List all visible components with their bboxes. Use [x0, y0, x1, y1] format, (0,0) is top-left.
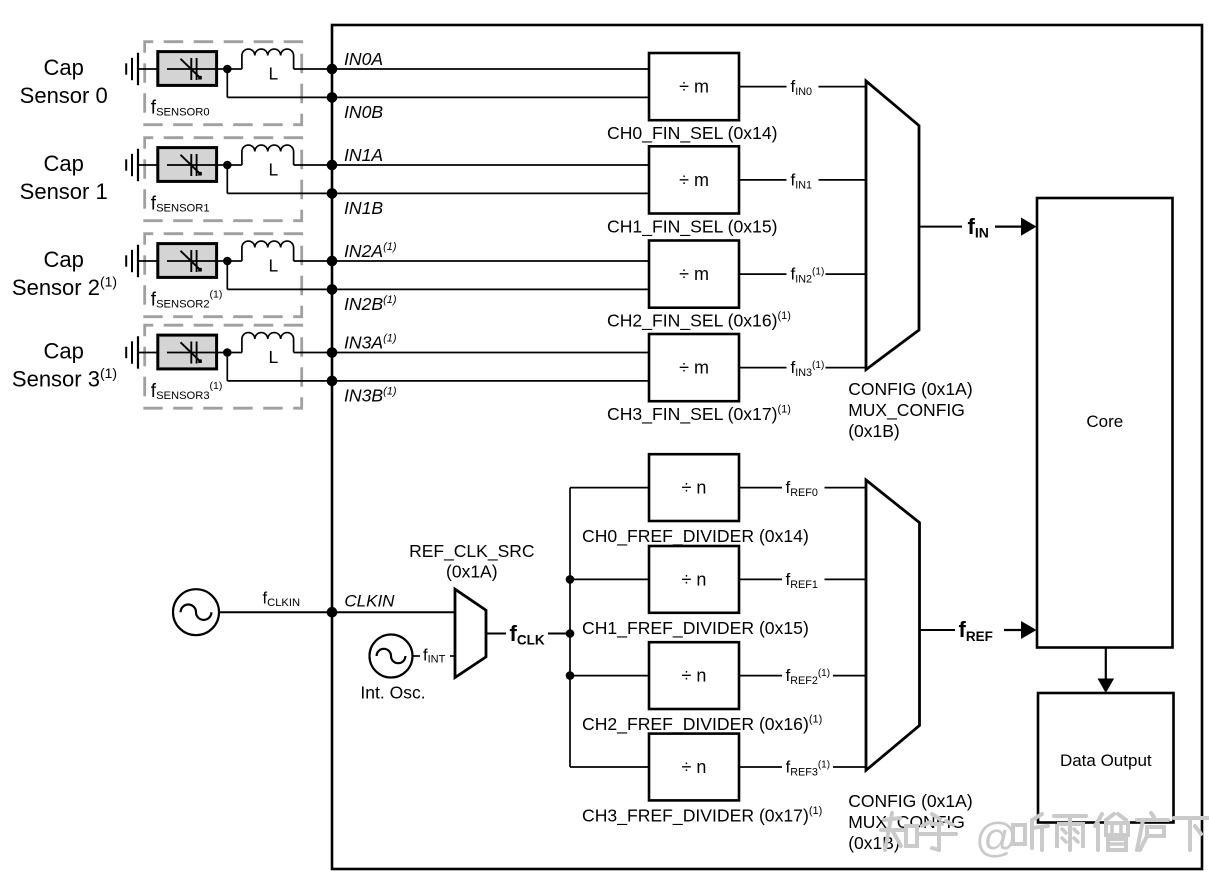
wire — [332, 68, 649, 70]
node f_CLK distribution junction — [566, 629, 575, 638]
svg-text:fIN: fIN — [968, 214, 989, 241]
svg-text:fIN0: fIN0 — [791, 77, 813, 98]
sensor electrode symbol C2 — [125, 255, 127, 266]
svg-text:IN0B: IN0B — [344, 102, 383, 122]
node sensor2 tank junction — [223, 257, 232, 266]
svg-text:IN3B(1): IN3B(1) — [344, 386, 397, 406]
svg-text:fREF0: fREF0 — [786, 478, 818, 499]
divider block /m channel 2 — [649, 241, 739, 308]
svg-text:CH1_FIN_SEL (0x15): CH1_FIN_SEL (0x15) — [607, 216, 777, 237]
svg-text:Sensor 3(1): Sensor 3(1) — [12, 365, 117, 392]
svg-text:÷ n: ÷ n — [682, 478, 707, 498]
wire — [332, 352, 649, 354]
wire — [833, 766, 866, 768]
wire f_REF3 — [739, 766, 782, 768]
svg-text:fSENSOR3(1): fSENSOR3(1) — [151, 380, 223, 402]
inductor L (sensor 0) — [232, 68, 242, 70]
wire CLKIN to ref mux — [332, 611, 455, 613]
wire — [819, 86, 867, 88]
svg-text:Sensor 2(1): Sensor 2(1) — [12, 274, 117, 301]
variable sensor capacitor box (sensor 1) — [158, 148, 217, 182]
node IN0B pin — [327, 92, 338, 103]
node sensor0 tank junction — [223, 65, 232, 74]
divider block /n channel 0 — [649, 454, 739, 521]
svg-text:fCLKIN: fCLKIN — [263, 589, 301, 609]
inductor L (sensor 3) — [232, 352, 242, 354]
variable sensor capacitor box (sensor 0) — [158, 52, 217, 86]
node IN1B pin — [327, 188, 338, 199]
svg-text:fSENSOR0: fSENSOR0 — [151, 98, 210, 119]
svg-text:Sensor 0: Sensor 0 — [20, 83, 108, 108]
wire f_REF2 — [739, 675, 782, 677]
wire f_CLK output — [486, 633, 506, 635]
svg-text:÷ n: ÷ n — [682, 569, 707, 589]
svg-text:(0x1A): (0x1A) — [446, 562, 498, 582]
wire — [217, 260, 232, 262]
node ref bus junction 1 — [566, 575, 575, 584]
mux U2 (reference multiplexer) — [866, 480, 920, 770]
wire core to data output arrow — [1105, 648, 1107, 682]
wire to /n divider 2 — [570, 675, 649, 677]
svg-text:fIN3(1): fIN3(1) — [791, 358, 825, 379]
wire f_IN1 — [739, 179, 787, 181]
sensor tank dashed box f_SENSOR2 — [145, 234, 302, 317]
svg-text:÷ m: ÷ m — [679, 170, 709, 190]
svg-text:IN1B: IN1B — [344, 198, 383, 218]
wire — [294, 164, 332, 166]
svg-text:÷ m: ÷ m — [679, 264, 709, 284]
wire f_INT — [413, 655, 421, 657]
svg-text:L: L — [269, 347, 279, 367]
wire f_REF output — [920, 629, 956, 631]
svg-text:CH0_FREF_DIVIDER (0x14): CH0_FREF_DIVIDER (0x14) — [582, 526, 809, 547]
wire — [332, 380, 649, 382]
wire arrow to core — [1004, 629, 1024, 631]
svg-text:÷ n: ÷ n — [682, 757, 707, 777]
wire — [217, 352, 232, 354]
svg-text:fIN2(1): fIN2(1) — [791, 265, 825, 286]
mux U1 (input channel multiplexer) — [866, 81, 919, 370]
svg-text:L: L — [269, 256, 279, 276]
svg-text:Cap: Cap — [44, 247, 84, 272]
wire — [825, 487, 867, 489]
wire — [826, 367, 867, 369]
wire — [548, 633, 570, 635]
wire f_REF1 — [739, 578, 782, 580]
sensor tank dashed box f_SENSOR3 — [145, 325, 302, 408]
sensor electrode symbol C1 — [125, 159, 127, 170]
svg-text:Data Output: Data Output — [1060, 751, 1152, 770]
wire f_CLKIN — [219, 611, 332, 613]
wire f_REF0 — [739, 487, 782, 489]
svg-text:fIN1: fIN1 — [791, 170, 813, 191]
svg-text:÷ n: ÷ n — [682, 666, 707, 686]
wire — [226, 69, 228, 97]
wire — [332, 96, 649, 98]
node IN1A pin — [327, 160, 338, 171]
svg-text:L: L — [269, 160, 279, 180]
svg-text:fSENSOR1: fSENSOR1 — [151, 194, 210, 215]
wire — [217, 164, 232, 166]
svg-text:CH0_FIN_SEL (0x14): CH0_FIN_SEL (0x14) — [607, 123, 777, 144]
node CLKIN pin — [327, 607, 338, 618]
divider block /n channel 1 — [649, 546, 739, 613]
wire — [294, 260, 332, 262]
svg-text:IN2B(1): IN2B(1) — [344, 294, 397, 314]
sensor electrode symbol C0 — [125, 63, 127, 74]
svg-text:fREF3(1): fREF3(1) — [786, 757, 831, 778]
wire — [226, 353, 228, 381]
svg-text:REF_CLK_SRC: REF_CLK_SRC — [409, 541, 534, 562]
wire to /n divider 1 — [570, 578, 649, 580]
wire f_IN3 — [739, 367, 787, 369]
svg-text:Core: Core — [1086, 412, 1123, 431]
divider block /n channel 2 — [649, 642, 739, 709]
wire — [332, 288, 649, 290]
wire arrow to core — [995, 226, 1024, 228]
divider block /m channel 1 — [649, 146, 739, 213]
wire to /n divider 0 — [570, 487, 649, 489]
wire — [819, 179, 867, 181]
svg-text:IN2A(1): IN2A(1) — [344, 241, 397, 261]
data output block — [1038, 693, 1174, 823]
svg-text:CONFIG (0x1A): CONFIG (0x1A) — [848, 791, 972, 811]
wire — [833, 675, 866, 677]
svg-text:CH2_FIN_SEL (0x16)(1): CH2_FIN_SEL (0x16)(1) — [607, 310, 791, 332]
chip boundary box — [332, 25, 1202, 869]
svg-text:fREF1: fREF1 — [786, 570, 818, 591]
svg-text:Cap: Cap — [44, 339, 84, 364]
svg-text:fREF2(1): fREF2(1) — [786, 666, 831, 687]
svg-text:IN0A: IN0A — [344, 49, 383, 69]
wire — [217, 68, 232, 70]
svg-text:CH3_FIN_SEL (0x17)(1): CH3_FIN_SEL (0x17)(1) — [607, 404, 791, 426]
svg-text:Sensor 1: Sensor 1 — [20, 179, 108, 204]
svg-text:fREF: fREF — [959, 617, 993, 644]
svg-text:CH2_FREF_DIVIDER (0x16)(1): CH2_FREF_DIVIDER (0x16)(1) — [582, 714, 822, 736]
node IN0A pin — [327, 64, 338, 75]
svg-text:fSENSOR2(1): fSENSOR2(1) — [151, 288, 223, 310]
wire — [294, 352, 332, 354]
svg-text:CLKIN: CLKIN — [344, 591, 395, 610]
svg-text:÷ m: ÷ m — [679, 358, 709, 378]
svg-text:IN1A: IN1A — [344, 145, 383, 165]
wire — [332, 164, 649, 166]
wire — [450, 655, 455, 657]
wire — [826, 273, 867, 275]
svg-text:Cap: Cap — [44, 151, 84, 176]
wire — [332, 192, 649, 194]
wire — [226, 165, 228, 193]
svg-text:CONFIG (0x1A): CONFIG (0x1A) — [848, 379, 972, 399]
wire f_IN output — [919, 226, 962, 228]
wire to /n divider 3 — [570, 766, 649, 768]
wire — [825, 578, 867, 580]
svg-text:÷ m: ÷ m — [679, 77, 709, 97]
wire — [294, 68, 332, 70]
sensor tank dashed box f_SENSOR0 — [145, 42, 302, 125]
wire reference distribution bus — [569, 488, 571, 767]
svg-text:Int. Osc.: Int. Osc. — [360, 683, 425, 703]
svg-text:CH1_FREF_DIVIDER (0x15): CH1_FREF_DIVIDER (0x15) — [582, 618, 809, 639]
svg-text:CH3_FREF_DIVIDER (0x17)(1): CH3_FREF_DIVIDER (0x17)(1) — [582, 805, 822, 827]
svg-text:(0x1B): (0x1B) — [848, 421, 900, 441]
wire — [138, 352, 158, 354]
divider block /n channel 3 — [649, 734, 739, 801]
divider block /m channel 3 — [649, 334, 739, 401]
node IN2A pin — [327, 256, 338, 267]
sensor tank dashed box f_SENSOR1 — [145, 138, 302, 221]
inductor L (sensor 2) — [232, 260, 242, 262]
wire — [138, 164, 158, 166]
wire f_IN0 — [739, 86, 787, 88]
watermark 知乎 @听雨僧庐下 — [881, 813, 1209, 861]
wire — [138, 260, 158, 262]
variable sensor capacitor box (sensor 3) — [158, 335, 217, 369]
wire — [226, 261, 228, 289]
mux U3 REF_CLK_SRC selector — [455, 589, 486, 677]
oscillator internal Int. Osc. — [370, 635, 413, 678]
svg-text:Cap: Cap — [44, 55, 84, 80]
svg-text:IN3A(1): IN3A(1) — [344, 333, 397, 353]
wire — [332, 260, 649, 262]
svg-text:L: L — [269, 64, 279, 84]
node ref bus junction 2 — [566, 671, 575, 680]
node IN2B pin — [327, 284, 338, 295]
svg-text:(0x1B): (0x1B) — [848, 833, 900, 853]
node IN3A pin — [327, 347, 338, 358]
inductor L (sensor 1) — [232, 164, 242, 166]
wire f_IN2 — [739, 273, 787, 275]
node IN3B pin — [327, 376, 338, 387]
svg-text:MUX_CONFIG: MUX_CONFIG — [848, 400, 965, 421]
divider block /m channel 0 — [649, 53, 739, 120]
core block — [1037, 198, 1173, 648]
sensor electrode symbol C3 — [125, 347, 127, 358]
variable sensor capacitor box (sensor 2) — [158, 244, 217, 278]
node sensor1 tank junction — [223, 161, 232, 170]
oscillator external clock source — [173, 589, 219, 635]
node sensor3 tank junction — [223, 348, 232, 357]
wire — [138, 68, 158, 70]
svg-text:fCLK: fCLK — [510, 621, 545, 648]
svg-text:fINT: fINT — [423, 647, 446, 666]
